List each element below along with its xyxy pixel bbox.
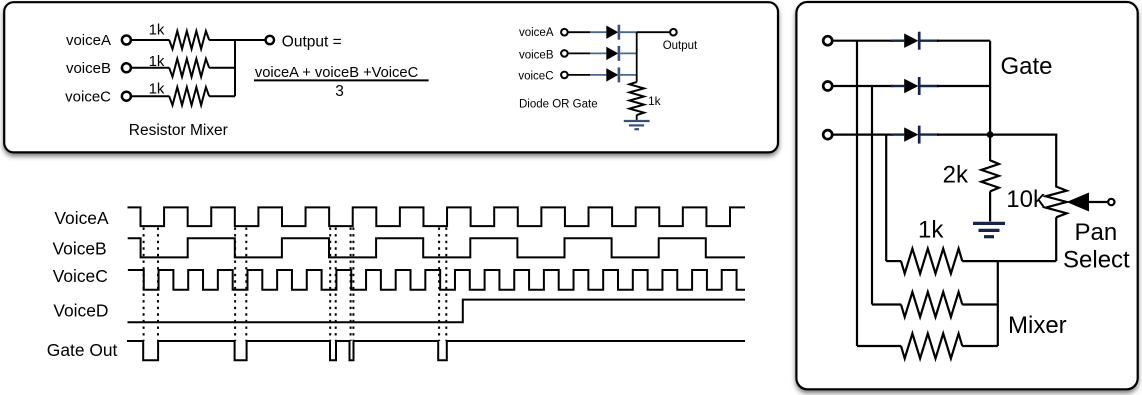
svg-text:1k: 1k xyxy=(648,94,662,108)
svg-text:1k: 1k xyxy=(918,216,944,243)
svg-text:Diode OR Gate: Diode OR Gate xyxy=(519,98,598,110)
svg-text:Pan: Pan xyxy=(1075,219,1118,246)
svg-text:2k: 2k xyxy=(943,162,969,189)
svg-text:Resistor Mixer: Resistor Mixer xyxy=(129,122,228,139)
svg-text:Output =: Output = xyxy=(282,33,342,50)
svg-text:1k: 1k xyxy=(149,53,165,70)
svg-text:Select: Select xyxy=(1063,247,1130,274)
svg-text:Output: Output xyxy=(663,40,698,52)
svg-text:voiceA + voiceB +VoiceC: voiceA + voiceB +VoiceC xyxy=(255,65,419,81)
svg-text:Gate Out: Gate Out xyxy=(47,340,118,360)
svg-text:voiceC: voiceC xyxy=(518,71,553,83)
svg-text:VoiceA: VoiceA xyxy=(54,208,109,228)
svg-text:VoiceC: VoiceC xyxy=(53,266,108,286)
svg-text:voiceB: voiceB xyxy=(66,60,111,77)
svg-text:3: 3 xyxy=(335,83,344,100)
svg-text:10k: 10k xyxy=(1006,186,1046,213)
svg-text:voiceA: voiceA xyxy=(66,32,111,49)
svg-text:Mixer: Mixer xyxy=(1008,312,1067,339)
svg-text:voiceB: voiceB xyxy=(519,50,554,62)
svg-text:voiceA: voiceA xyxy=(519,27,554,39)
svg-text:1k: 1k xyxy=(149,81,165,98)
svg-text:VoiceB: VoiceB xyxy=(53,239,107,259)
svg-text:VoiceD: VoiceD xyxy=(53,301,108,321)
svg-text:voiceC: voiceC xyxy=(65,88,111,105)
svg-text:1k: 1k xyxy=(149,22,165,39)
svg-text:Gate: Gate xyxy=(1001,53,1053,80)
